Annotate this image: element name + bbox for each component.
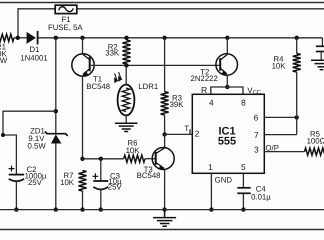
wire main supply bus (14, 37, 322, 39)
capacitor C1 (cut at edge) (316, 46, 324, 51)
node D1 cathode / ZD1 branch (54, 36, 58, 40)
svg-text:33K: 33K (105, 49, 120, 58)
wire R4 upper lead (296, 38, 298, 54)
pin 2 stub tick (189, 129, 191, 134)
ground symbol right edge (311, 60, 324, 69)
wire trigger to pin 2 (165, 133, 193, 135)
svg-text:100Ω: 100Ω (307, 137, 324, 146)
resistor R6 (124, 155, 145, 162)
node R7 bottom (80, 207, 84, 211)
resistor R4 (293, 54, 301, 73)
node row junction T1 emitter / R7 (80, 157, 84, 161)
ground under LDR1 (115, 123, 138, 131)
fuse F1 (55, 5, 77, 13)
svg-text:BC548: BC548 (137, 171, 161, 180)
wire C2 bottom (15, 181, 17, 210)
resistor R3 (161, 92, 169, 115)
resistor R7 (79, 171, 87, 192)
wire ZD1 anode to ground bus (55, 144, 57, 210)
node R1/D1 junction (16, 36, 20, 40)
capacitor C4 (237, 188, 250, 194)
wire top fuse row (18, 9, 324, 38)
node ZD1 / C2 branch (54, 109, 58, 113)
wire pin4/pin8 bracket (211, 87, 243, 94)
svg-text:555: 555 (218, 136, 236, 148)
photoresistor LDR1 (118, 65, 135, 123)
wire ZD1 column upper (55, 38, 57, 133)
svg-text:BC548: BC548 (86, 82, 110, 91)
wire bus right corner to C1 (321, 38, 323, 47)
transistor T3 (152, 134, 174, 209)
svg-text:2: 2 (195, 129, 200, 139)
wire R6 to T3 base (145, 158, 156, 160)
border frame top (0, 2, 324, 4)
svg-text:O/P: O/P (265, 144, 278, 153)
svg-text:10K: 10K (272, 62, 287, 71)
node T2 collector on bus (225, 36, 229, 40)
node trigger T (162, 132, 166, 136)
svg-text:39K: 39K (170, 100, 185, 109)
node T1 collector on bus (80, 36, 84, 40)
wire row to R6 (83, 158, 124, 160)
svg-text:1N4001: 1N4001 (20, 53, 47, 62)
wire R7 bottom (82, 191, 84, 210)
svg-text:3: 3 (254, 144, 259, 154)
resistor R1 (0, 34, 14, 41)
wire base row T1 to T2 (90, 64, 221, 66)
zener diode ZD1 (45, 132, 68, 144)
wire R4 lower column (296, 72, 298, 135)
label R1 (cut off at edge) (0, 42, 8, 65)
wire C3 bottom (100, 189, 102, 210)
border frame bottom (0, 229, 324, 231)
wire left jog to C2 (3, 111, 56, 174)
transistor T1 (72, 38, 94, 159)
wire pin 7 to R4 (264, 134, 296, 136)
svg-text:10K: 10K (60, 178, 75, 187)
svg-text:FUSE, 5A: FUSE, 5A (48, 23, 83, 32)
wire R3 upper lead (164, 38, 166, 92)
wire C4 to bus (242, 193, 244, 209)
node C3 bottom (99, 207, 103, 211)
svg-text:0.5W: 0.5W (27, 142, 46, 151)
node left edge junction (1, 133, 5, 137)
diode D1 (27, 31, 38, 45)
capacitor C2 (9, 166, 25, 182)
node R3 top on bus (162, 36, 166, 40)
wire C1 to ground (320, 52, 322, 61)
svg-text:6: 6 (254, 112, 259, 122)
svg-text:GND: GND (215, 175, 233, 184)
op-amp timer IC1 555 box (192, 94, 264, 173)
svg-text:10K: 10K (126, 146, 141, 155)
svg-text:25V: 25V (108, 182, 123, 191)
wire pin 1 to ground bus (210, 173, 212, 209)
LDR light arrows (115, 72, 122, 82)
svg-text:5: 5 (241, 162, 246, 172)
wire pin 6 to R4 (264, 116, 296, 118)
svg-text:4: 4 (209, 97, 214, 107)
svg-text:7: 7 (254, 130, 259, 140)
node C2 bottom (14, 207, 18, 211)
svg-text:LDR1: LDR1 (138, 82, 158, 91)
node T2 emitter to R/Vcc bracket (225, 85, 229, 89)
resistor R5 (305, 148, 324, 155)
wire C3 upper lead (100, 159, 102, 181)
svg-text:0.01µ: 0.01µ (251, 192, 271, 201)
wire pin 5 to C4 (242, 173, 244, 188)
ground bus bottom wire (0, 209, 324, 211)
svg-text:2N2222: 2N2222 (191, 74, 218, 83)
node pin6/R4 junction (295, 115, 299, 119)
transistor T2 (216, 38, 238, 87)
ground symbol bottom center (153, 210, 176, 227)
node R2 top on bus (124, 36, 128, 40)
svg-text:8: 8 (241, 97, 246, 107)
svg-text:25V: 25V (28, 178, 43, 187)
node C3 top (99, 157, 103, 161)
node C4 bottom (241, 207, 245, 211)
svg-text:1: 1 (208, 162, 213, 172)
node ZD1 bottom (54, 207, 58, 211)
capacitor C3 (93, 173, 109, 189)
node pin1 bottom (209, 207, 213, 211)
wire pin 3 output (264, 151, 304, 153)
svg-text:T: T (184, 124, 189, 133)
wire R3 bottom to trigger node (164, 115, 166, 134)
svg-text:R: R (201, 85, 207, 95)
svg-text:1W: 1W (0, 56, 8, 65)
node R4 top on bus (295, 36, 299, 40)
resistor R2 (123, 40, 131, 64)
node R2/LDR1/base junction (124, 63, 128, 67)
node T3 emitter on bus (162, 207, 166, 211)
